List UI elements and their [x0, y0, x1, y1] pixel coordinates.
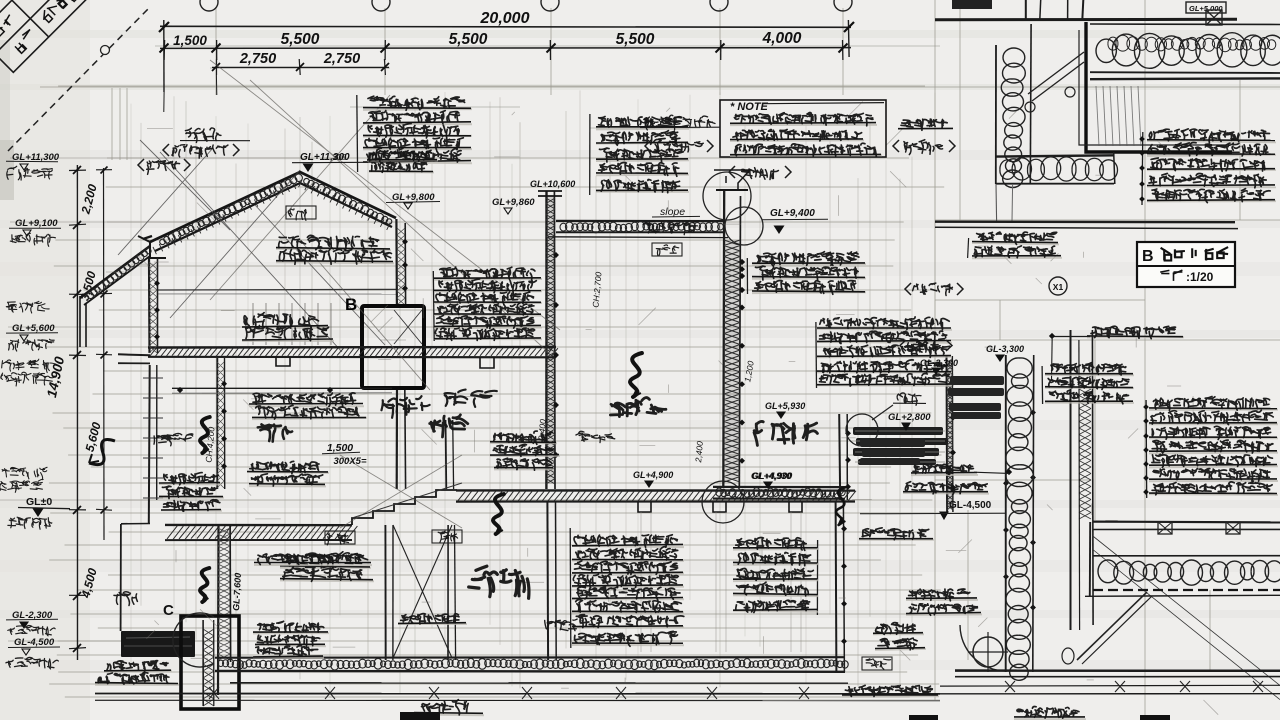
window sill marks left wall	[143, 378, 163, 498]
terrace parapet	[839, 414, 840, 500]
right rows detail2	[1145, 400, 1148, 498]
leader cluster above roof left	[356, 95, 359, 172]
rows on 2F left	[242, 327, 329, 328]
NOTE box	[720, 100, 886, 157]
top slab thick line	[935, 18, 1237, 22]
bottom squiggle band of parapet	[996, 155, 1114, 156]
svg-text:GL+4,930: GL+4,930	[751, 471, 791, 481]
X1 bubble	[1049, 277, 1067, 295]
right rows detail1	[1141, 132, 1144, 205]
svg-text:GL+9,860: GL+9,860	[492, 197, 535, 208]
foundation detail2	[955, 669, 1280, 672]
curly arrow left	[89, 440, 115, 465]
wall W1 x396-406	[395, 219, 398, 306]
bottom rows detail1	[972, 243, 1059, 245]
terrace cluster	[815, 322, 818, 388]
basement X brace	[393, 525, 452, 658]
leader rows left of wall	[911, 474, 978, 476]
terrace slab (upper right)	[713, 486, 845, 488]
svg-text:2,750: 2,750	[323, 51, 360, 67]
1F slab right (upper level)	[456, 489, 855, 492]
diagonal strut + ellipse	[1077, 592, 1147, 660]
svg-text:GL-3,300: GL-3,300	[986, 344, 1024, 354]
dashed diagonal	[8, 8, 149, 151]
right cluster basement	[816, 540, 818, 615]
drain diagonals	[1028, 52, 1084, 94]
dimension line 20000	[160, 26, 851, 27]
lobby cluster left	[258, 424, 292, 441]
svg-text:GL±0: GL±0	[26, 496, 52, 508]
balcony slab left	[118, 354, 150, 355]
detail circle at slab/W3	[702, 481, 744, 523]
svg-text:GL-4,500: GL-4,500	[14, 637, 55, 648]
svg-text:* NOTE: * NOTE	[730, 101, 769, 113]
basement floor slab	[215, 656, 845, 659]
basement walls	[546, 502, 549, 660]
svg-text:GL+9,100: GL+9,100	[15, 218, 58, 229]
soil dark bands on terrace	[853, 427, 948, 465]
interior wall 2F x215	[216, 358, 218, 489]
extra wall dots	[739, 266, 745, 272]
svg-text:C: C	[163, 602, 174, 619]
attic balustrade	[253, 303, 331, 345]
scale label box	[1137, 242, 1235, 287]
svg-text:GL+9,400: GL+9,400	[770, 208, 815, 219]
attic collar lines	[158, 288, 396, 291]
long setout diagonals	[210, 60, 560, 528]
svg-text::1/20: :1/20	[1186, 270, 1214, 284]
svg-text:20,000: 20,000	[480, 10, 530, 27]
EIP boxed labels	[286, 206, 316, 219]
svg-text:5,500: 5,500	[281, 31, 320, 48]
svg-text:2,400: 2,400	[536, 418, 548, 441]
rows below 1F slab left	[280, 567, 371, 569]
mulbaji drain label	[897, 393, 921, 405]
svg-text:300X5=: 300X5=	[333, 456, 366, 467]
bottom-left rows	[104, 671, 172, 672]
funnel drain at W3 top	[714, 170, 750, 190]
detail floor line	[935, 220, 1235, 223]
svg-text:5,500: 5,500	[616, 31, 655, 48]
room label: ok-oe-gongwon	[754, 421, 817, 445]
C detail box	[181, 616, 239, 709]
title block	[0, 0, 119, 72]
svg-text:4,000: 4,000	[762, 30, 802, 47]
svg-text:2,400: 2,400	[693, 440, 705, 463]
svg-text:GL-7,600: GL-7,600	[231, 573, 243, 612]
cluster right of B	[432, 271, 435, 341]
svg-text:GL+4,900: GL+4,900	[633, 470, 673, 480]
svg-text:GL+5,600: GL+5,600	[12, 323, 55, 334]
dimension line 1500/5500/5500/5500/4000	[160, 47, 851, 50]
svg-text:1,500: 1,500	[173, 33, 207, 48]
roof slab flat W2-W3	[556, 220, 725, 222]
left dim chain	[76, 165, 78, 660]
dimension line 2750/2750	[212, 66, 389, 68]
svg-text:B: B	[1142, 248, 1154, 265]
interior wall x445	[445, 420, 448, 489]
rows near stairs top	[490, 442, 557, 444]
wall W3 x723-742	[724, 240, 740, 480]
room labels big	[430, 415, 468, 437]
top rows detail2	[1041, 366, 1044, 404]
S swoosh arrows	[200, 417, 210, 453]
wall assembly	[1005, 355, 1007, 672]
diagonal construction lines over roof	[118, 140, 385, 352]
beam hatch under slab	[1096, 86, 1141, 146]
left ground/area way	[120, 524, 122, 631]
left ext wall below eave	[148, 258, 151, 353]
svg-text:GL-3,300: GL-3,300	[920, 358, 958, 368]
NOTE leaders	[640, 126, 720, 128]
quarter arc + crosshair	[960, 625, 1006, 671]
svg-text:2,750: 2,750	[239, 51, 276, 67]
soil dark bands	[860, 376, 1004, 465]
svg-text:GL+11,300: GL+11,300	[300, 152, 350, 163]
stairs	[352, 490, 457, 525]
roof build-up right	[1090, 23, 1280, 26]
svg-text:GL+5,930: GL+5,930	[765, 401, 805, 411]
parapet insulation column	[995, 45, 997, 184]
right wall W5	[946, 356, 949, 512]
svg-text:GL+10,600: GL+10,600	[530, 179, 575, 189]
svg-text:X1: X1	[1053, 282, 1064, 292]
svg-text:GL+2,800: GL+2,800	[888, 412, 931, 423]
1F floor slab left (lower)	[165, 524, 352, 527]
parapet inner face thick L	[1086, 22, 1232, 152]
leader cluster above roof mid	[589, 114, 591, 195]
W2 right rows	[746, 258, 748, 294]
roof pitched : left slope	[143, 172, 396, 251]
small scribbles scattered (hand marks)	[445, 390, 497, 407]
svg-text:5,500: 5,500	[449, 31, 488, 48]
wall W2 tall x545-556	[546, 196, 555, 484]
single rows bottom	[398, 623, 467, 625]
footing hatch marks	[209, 687, 809, 699]
terrace roof left slope	[80, 246, 150, 298]
dark beam fill	[121, 631, 195, 657]
rows under right roof	[276, 249, 391, 251]
roof eave left detail	[138, 236, 166, 258]
central big cluster basement	[569, 528, 572, 648]
basement left retaining wall	[217, 524, 220, 695]
svg-text:GL-4,500: GL-4,500	[949, 500, 992, 511]
detail B top-right	[935, 0, 1280, 380]
glass row	[1087, 336, 1184, 338]
detail bottom-right	[400, 330, 1280, 720]
2F ceiling line + rows	[172, 387, 392, 389]
2F floor slab	[148, 346, 556, 349]
scan noise strokes	[106, 102, 1218, 715]
floor slab right	[1093, 520, 1280, 523]
bottom black stubs	[909, 715, 938, 720]
left roof labels	[185, 128, 221, 142]
grid bubbles	[200, 0, 218, 11]
detail circles at W3 top	[703, 172, 751, 220]
